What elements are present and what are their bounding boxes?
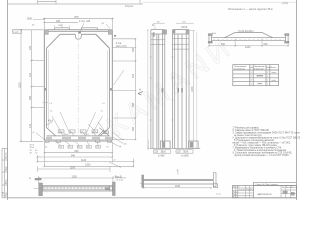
notch side plate	[78, 32, 81, 34]
svg-text:45х3: 45х3	[64, 134, 70, 136]
side view 2 bottom labels	[176, 150, 184, 153]
right rotated dim labels	[132, 47, 135, 131]
svg-text:940: 940	[71, 154, 76, 157]
top rail inner line	[47, 30, 108, 32]
bottom rail weld clusters	[46, 137, 112, 139]
inner flange line left	[48, 50, 50, 128]
left rotated dim labels	[18, 45, 32, 128]
bar left end plate	[142, 175, 144, 188]
beam dimension line	[209, 39, 288, 47]
left rail mid bracket	[44, 88, 46, 91]
second right dim line	[196, 32, 198, 148]
beam dim tick slashes	[208, 45, 289, 47]
sheet border bottom	[8, 197, 297, 199]
svg-text:1620: 1620	[18, 82, 21, 88]
svg-text:Инв. №: Инв. №	[4, 153, 7, 160]
bottom rail lower line	[44, 140, 112, 142]
svg-text:L=360: L=360	[158, 156, 165, 158]
svg-text:Пров.: Пров.	[233, 194, 238, 196]
svg-text:Труба 60х30х3: Труба 60х30х3	[238, 31, 254, 33]
sheet border right	[296, 0, 298, 200]
right mid leader	[114, 70, 125, 85]
long interior leaders	[52, 112, 103, 134]
bottom view dimension top	[37, 166, 110, 172]
side view 1 bottom labels	[154, 150, 162, 153]
table header text	[234, 66, 277, 70]
inner flange line right	[106, 50, 108, 128]
svg-text:отверстий: отверстий	[254, 67, 263, 70]
svg-text:870: 870	[75, 16, 80, 19]
title block left grid	[233, 186, 254, 198]
svg-text:410: 410	[29, 123, 32, 128]
bottom gusset right	[100, 128, 109, 136]
svg-text:12.04: 12.04	[2, 192, 4, 197]
svg-text:Взам.: Взам.	[5, 179, 7, 184]
right rail mid bracket	[110, 88, 112, 91]
side view 2 top tab	[173, 30, 176, 33]
top lug right	[81, 28, 97, 30]
right cells dark	[283, 191, 288, 194]
row of callout flags below frame	[59, 145, 101, 148]
svg-text:исполнения: исполнения	[234, 68, 245, 70]
svg-text:группа условий эксплуатации —: группа условий эксплуатации — У1 по ГОСТ…	[234, 154, 289, 157]
svg-text:1250: 1250	[72, 175, 78, 178]
callout boxes inside frame	[58, 130, 98, 133]
svg-text:~(≈)/|: ~(≈)/|	[281, 1, 288, 5]
left rail tick	[43, 102, 49, 104]
svg-text:Дата: Дата	[250, 189, 254, 191]
front view inner opening with chamfers and notch	[47, 34, 110, 136]
svg-text:1180: 1180	[175, 185, 181, 188]
title block outline	[233, 182, 297, 198]
small left labels	[30, 145, 39, 155]
top overall width dimension	[43, 18, 114, 29]
right vertical dimension chain	[113, 39, 137, 140]
title block right grid	[281, 186, 297, 198]
svg-text:Изм Лист: Изм Лист	[233, 186, 240, 188]
bottom dimension rows	[37, 142, 133, 167]
svg-text:390: 390	[132, 102, 135, 107]
top-left small box	[13, 30, 22, 34]
svg-text:2 отв. ⌀18: 2 отв. ⌀18	[79, 20, 91, 23]
top center notch	[75, 34, 81, 39]
svg-text:255: 255	[29, 95, 32, 100]
svg-text:Н.контр.: Н.контр.	[233, 196, 240, 198]
svg-text:А: А	[139, 88, 141, 92]
side view 1 body	[151, 30, 165, 149]
bottom view width dim	[38, 176, 113, 183]
lug dimension marks	[55, 26, 70, 28]
svg-text:Масса: Масса	[270, 67, 277, 69]
side view 1 top tick	[154, 27, 156, 29]
svg-text:Разраб.: Разраб.	[233, 192, 239, 194]
bottom-right leaders outside frame	[110, 132, 123, 146]
bottom view body	[42, 186, 112, 191]
svg-text:АБВГ.301.000 СБ: АБВГ.301.000 СБ	[258, 193, 273, 196]
side view edge ticks	[150, 57, 174, 120]
dimension tick slashes	[20, 18, 136, 167]
table row symbols	[257, 75, 264, 76]
svg-text:L=1540: L=1540	[181, 156, 189, 158]
bottom view left end	[39, 183, 43, 196]
small header texts right	[282, 187, 298, 189]
svg-text:520: 520	[264, 43, 269, 46]
svg-text:Подп.: Подп.	[5, 166, 7, 171]
leaders from rail to flags	[55, 141, 98, 145]
svg-text:420: 420	[132, 73, 135, 78]
side view 2 mid plates	[177, 88, 179, 93]
view A arrow	[138, 92, 143, 96]
svg-text:1670: 1670	[191, 86, 194, 92]
beam left end plate	[208, 34, 212, 43]
svg-text:Формат: Формат	[125, 5, 134, 8]
side view right dim line	[190, 31, 195, 150]
bottom gusset left	[47, 128, 56, 136]
svg-text:Исполнение 1 — масса изделия 3: Исполнение 1 — масса изделия 38 кг	[228, 7, 273, 11]
front view outer frame	[44, 30, 112, 140]
bottom view right end	[113, 182, 116, 196]
svg-text:1180: 1180	[70, 166, 76, 169]
leader lines bottom interior	[47, 122, 104, 136]
bar right end block	[213, 173, 217, 188]
svg-text:1250: 1250	[85, 164, 91, 167]
svg-text:2 шт.: 2 шт.	[216, 194, 221, 196]
right corner dense cluster	[98, 128, 109, 136]
bottom view hatch	[43, 187, 109, 189]
svg-text:(1:2,5): (1:2,5)	[117, 180, 124, 182]
bottom view left top plate	[35, 178, 42, 180]
svg-text:10г: 10г	[124, 144, 127, 146]
svg-text:Масшт.: Масшт.	[291, 187, 298, 189]
top left corner block	[44, 30, 48, 35]
table body marks	[251, 72, 270, 86]
svg-text:Подп.: Подп.	[5, 191, 7, 196]
top lug left	[55, 28, 70, 30]
svg-text:45х3: 45х3	[48, 121, 54, 123]
svg-text:290: 290	[132, 126, 135, 131]
svg-text:Б-Б: Б-Б	[213, 33, 217, 35]
exterior corner leader	[36, 133, 44, 139]
leader to к2	[109, 162, 121, 168]
svg-text:4 отв.: 4 отв.	[116, 43, 122, 45]
svg-text:1240: 1240	[245, 46, 251, 49]
top right corner block	[108, 30, 112, 35]
side view 2 body	[173, 30, 190, 149]
side view 1 foot	[148, 140, 176, 151]
side view 2 foot	[174, 141, 200, 148]
svg-text:800: 800	[75, 150, 80, 153]
side view 2 top dim	[176, 22, 194, 24]
top stamp box	[38, 0, 141, 4]
svg-text:300: 300	[132, 47, 135, 52]
left chain dimension line	[31, 30, 44, 142]
svg-text:100х8: 100х8	[181, 27, 188, 29]
svg-text:310: 310	[29, 72, 32, 77]
bottom view inner dark segment	[105, 188, 110, 190]
bottom feet	[45, 140, 111, 142]
side view 1 mid plates	[162, 88, 164, 93]
svg-text:Справ. № Перв. примен.: Справ. № Перв. примен.	[256, 183, 279, 186]
beam hatch dashes	[213, 38, 284, 40]
svg-text:1120: 1120	[81, 159, 87, 162]
left margin stamp	[2, 149, 8, 198]
bar dimension	[140, 184, 211, 189]
center line	[77, 33, 79, 142]
side view 1 left dim line	[147, 30, 149, 148]
svg-text:370: 370	[29, 45, 32, 50]
svg-text:520: 520	[221, 43, 226, 46]
sheet border top	[8, 3, 144, 5]
sheet border left	[7, 0, 9, 200]
svg-text:435: 435	[56, 20, 61, 23]
bottom view left tick	[34, 188, 39, 190]
bar body	[144, 180, 214, 185]
parts table grid	[233, 65, 279, 86]
left outer vertical dimension	[20, 30, 44, 142]
beam right end plate	[285, 34, 289, 43]
beam body	[212, 33, 286, 41]
side view 1 top tab	[153, 32, 155, 36]
svg-text:1:2,5: 1:2,5	[13, 31, 19, 33]
svg-text:1640: 1640	[27, 18, 33, 21]
notes text block	[233, 128, 306, 158]
title block texts	[233, 186, 254, 198]
bar top tick	[177, 172, 179, 175]
watermark	[102, 30, 239, 142]
